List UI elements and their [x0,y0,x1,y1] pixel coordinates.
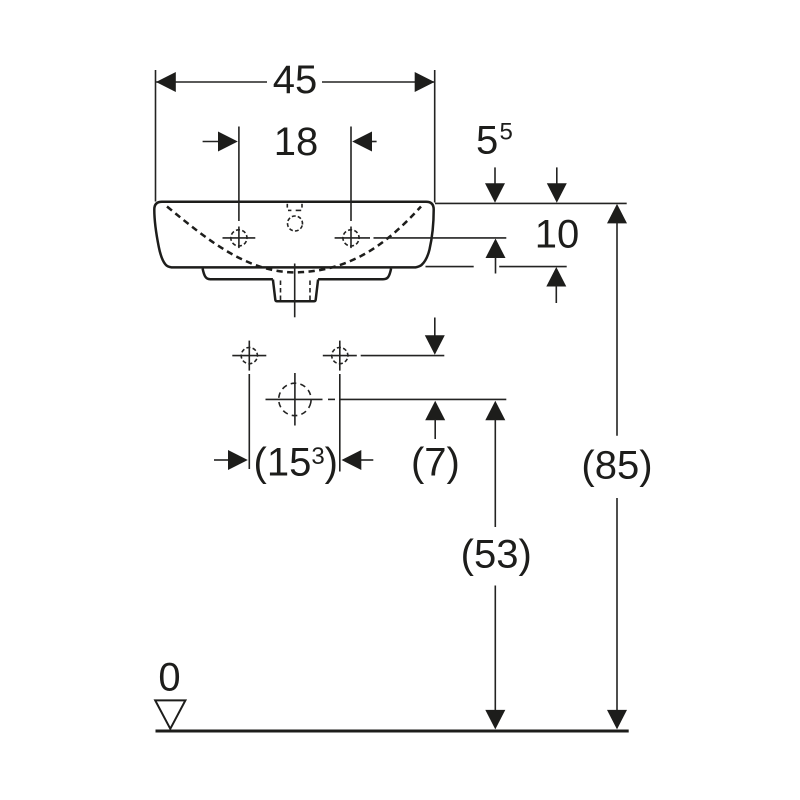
overflow slot dashes [287,204,302,211]
dimension 18: value label [274,120,319,164]
dimension 45: extension lines [156,70,435,203]
drain hole dashed circle [276,380,314,418]
svg-text:18: 18 [274,120,319,164]
overflow dashed circle [286,214,304,232]
tap hole centre reference line to the right [335,237,507,239]
basin lower edge reference line to the right [426,266,567,268]
basin inner rim dashed curve [167,207,421,273]
dimension (15.3): value label with superscript [254,441,339,485]
left fixing hole cross [232,341,266,371]
dimension (53): value label [461,533,532,577]
dimension (7): value label [411,441,460,485]
dimension 45: dimension line with arrows [156,72,435,92]
dimension 45: value label [273,58,318,102]
left tap hole cross [223,227,256,249]
svg-text:5: 5 [500,119,513,146]
dimension (85): value label [581,444,652,488]
dimension (53): vertical line with arrows [485,401,505,730]
svg-text:0: 0 [158,656,180,700]
svg-text:(53): (53) [461,533,532,577]
drain centerline through trap [294,264,296,318]
dimension 18: extension lines through tap holes [239,127,351,222]
siphon trap cover box [273,280,318,302]
washbasin outline (front view) [154,202,433,268]
dimension 10: up arrow to basin lower edge line [546,267,566,303]
svg-text:5: 5 [476,119,498,163]
basin apron (recessed lower panel) [203,269,392,280]
svg-text:45: 45 [273,58,318,102]
dimension 5.5: down arrow to basin top line [485,167,505,202]
dimension (15.3): outside arrows [214,450,373,470]
dimension 18: dimension line with outside arrows [203,132,377,152]
dimension 10: value label [535,213,580,257]
datum level triangle symbol [155,700,185,728]
basin top reference line to the right [435,202,627,204]
dimension (85): vertical line with arrows [607,204,627,730]
dimension 10: down arrow to basin top line [547,167,567,202]
dimension (7): up arrow to drain centre line [425,401,445,439]
dimension (15.3): extension lines below fixing holes [249,374,339,472]
datum zero label [158,656,180,700]
svg-text:(7): (7) [411,441,460,485]
svg-text:10: 10 [535,213,580,257]
dimension (7): down arrow to fixing hole line [425,318,445,355]
right fixing hole cross [323,341,357,371]
dimension 5.5: up arrow to tap hole line [486,239,506,274]
svg-text:(85): (85) [581,444,652,488]
drain hole cross lines [266,373,507,426]
floor line [156,730,629,733]
dimension 5.5: value label with superscript [476,119,513,163]
fixing hole reference line to the right [361,355,445,357]
right tap hole cross [340,227,361,249]
svg-text:(153): (153) [254,441,339,485]
